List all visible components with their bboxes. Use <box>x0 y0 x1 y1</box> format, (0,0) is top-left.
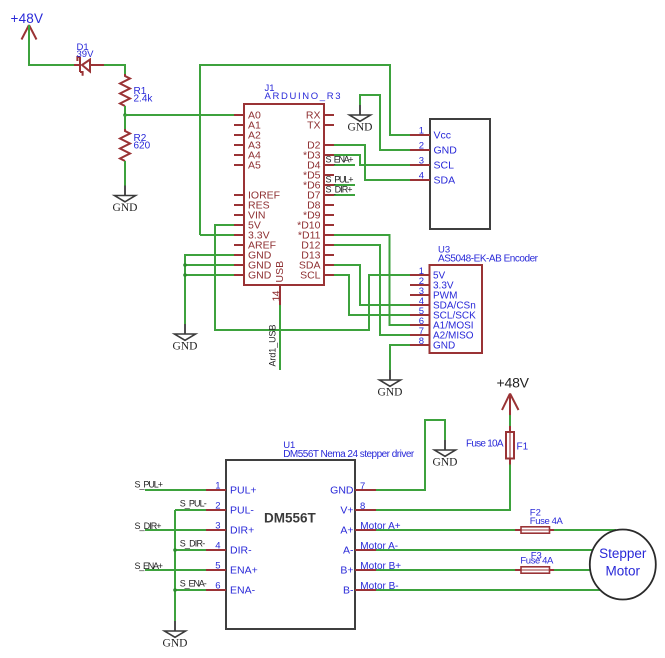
svg-text:4: 4 <box>419 170 424 181</box>
svg-text:1: 1 <box>419 125 424 136</box>
svg-text:AS5048-EK-AB Encoder: AS5048-EK-AB Encoder <box>438 254 539 265</box>
svg-text:8: 8 <box>419 336 424 347</box>
svg-text:7: 7 <box>360 481 365 492</box>
svg-text:SCL: SCL <box>300 270 321 282</box>
svg-text:Fuse 4A: Fuse 4A <box>520 555 554 566</box>
svg-text:ENA+: ENA+ <box>230 565 258 577</box>
svg-text:V+: V+ <box>340 505 353 517</box>
svg-text:PUL-: PUL- <box>230 505 254 517</box>
svg-text:DIR-: DIR- <box>230 545 252 557</box>
svg-text:A5: A5 <box>248 160 261 172</box>
svg-text:Motor B-: Motor B- <box>360 581 398 592</box>
svg-text:8: 8 <box>360 501 365 512</box>
svg-text:B+: B+ <box>340 565 353 577</box>
svg-text:Motor B+: Motor B+ <box>360 561 401 572</box>
svg-text:+48V: +48V <box>497 375 530 391</box>
svg-text:PUL+: PUL+ <box>230 485 257 497</box>
svg-text:GND: GND <box>113 202 138 214</box>
svg-text:F1: F1 <box>517 441 529 452</box>
svg-text:TX: TX <box>307 120 320 132</box>
svg-text:620: 620 <box>134 141 151 152</box>
svg-text:B-: B- <box>343 585 354 597</box>
svg-text:2: 2 <box>215 501 220 512</box>
svg-text:GND: GND <box>433 457 458 469</box>
svg-text:DM556T: DM556T <box>264 510 317 525</box>
svg-text:S_DIR-: S_DIR- <box>180 539 206 549</box>
svg-text:GND: GND <box>330 485 354 497</box>
svg-text:ENA-: ENA- <box>230 585 256 597</box>
svg-text:SCL: SCL <box>434 160 455 172</box>
svg-text:GND: GND <box>173 341 198 353</box>
svg-text:1: 1 <box>215 481 220 492</box>
svg-text:USB: USB <box>274 261 286 283</box>
svg-text:Fuse 10A: Fuse 10A <box>466 439 504 450</box>
svg-text:GND: GND <box>163 638 188 650</box>
svg-text:5: 5 <box>215 561 220 572</box>
svg-text:S_ENA+: S_ENA+ <box>135 561 164 571</box>
svg-text:39V: 39V <box>77 49 95 60</box>
svg-text:DM556T Nema 24 stepper driver: DM556T Nema 24 stepper driver <box>283 449 415 460</box>
svg-text:A+: A+ <box>340 525 353 537</box>
svg-text:GND: GND <box>433 341 455 352</box>
svg-text:S_PUL+: S_PUL+ <box>135 480 164 490</box>
svg-text:Motor A-: Motor A- <box>360 541 398 552</box>
svg-text:Ard1_USB: Ard1_USB <box>268 325 278 367</box>
svg-text:DIR+: DIR+ <box>230 525 254 537</box>
svg-text:GND: GND <box>248 270 272 282</box>
svg-text:S_ENA-: S_ENA- <box>180 578 207 588</box>
svg-text:Vcc: Vcc <box>434 130 452 142</box>
svg-text:Fuse 4A: Fuse 4A <box>530 516 564 527</box>
svg-text:S_PUL-: S_PUL- <box>180 499 207 509</box>
svg-text:SDA: SDA <box>434 175 456 187</box>
svg-text:A-: A- <box>343 545 354 557</box>
svg-text:3: 3 <box>215 521 220 532</box>
svg-text:Stepper: Stepper <box>599 546 647 561</box>
svg-text:2.4k: 2.4k <box>134 94 154 105</box>
svg-text:+48V: +48V <box>11 11 44 26</box>
svg-text:GND: GND <box>348 122 373 134</box>
svg-text:GND: GND <box>434 145 458 157</box>
svg-text:ARDUINO_R3: ARDUINO_R3 <box>265 91 341 102</box>
svg-text:Motor A+: Motor A+ <box>360 521 400 532</box>
svg-text:14: 14 <box>271 290 283 301</box>
svg-text:4: 4 <box>215 541 220 552</box>
svg-text:6: 6 <box>215 581 220 592</box>
svg-text:Motor: Motor <box>606 564 641 579</box>
svg-text:S_DIR+: S_DIR+ <box>135 521 162 531</box>
svg-text:3: 3 <box>419 155 424 166</box>
svg-text:2: 2 <box>419 140 424 151</box>
svg-text:GND: GND <box>378 387 403 399</box>
